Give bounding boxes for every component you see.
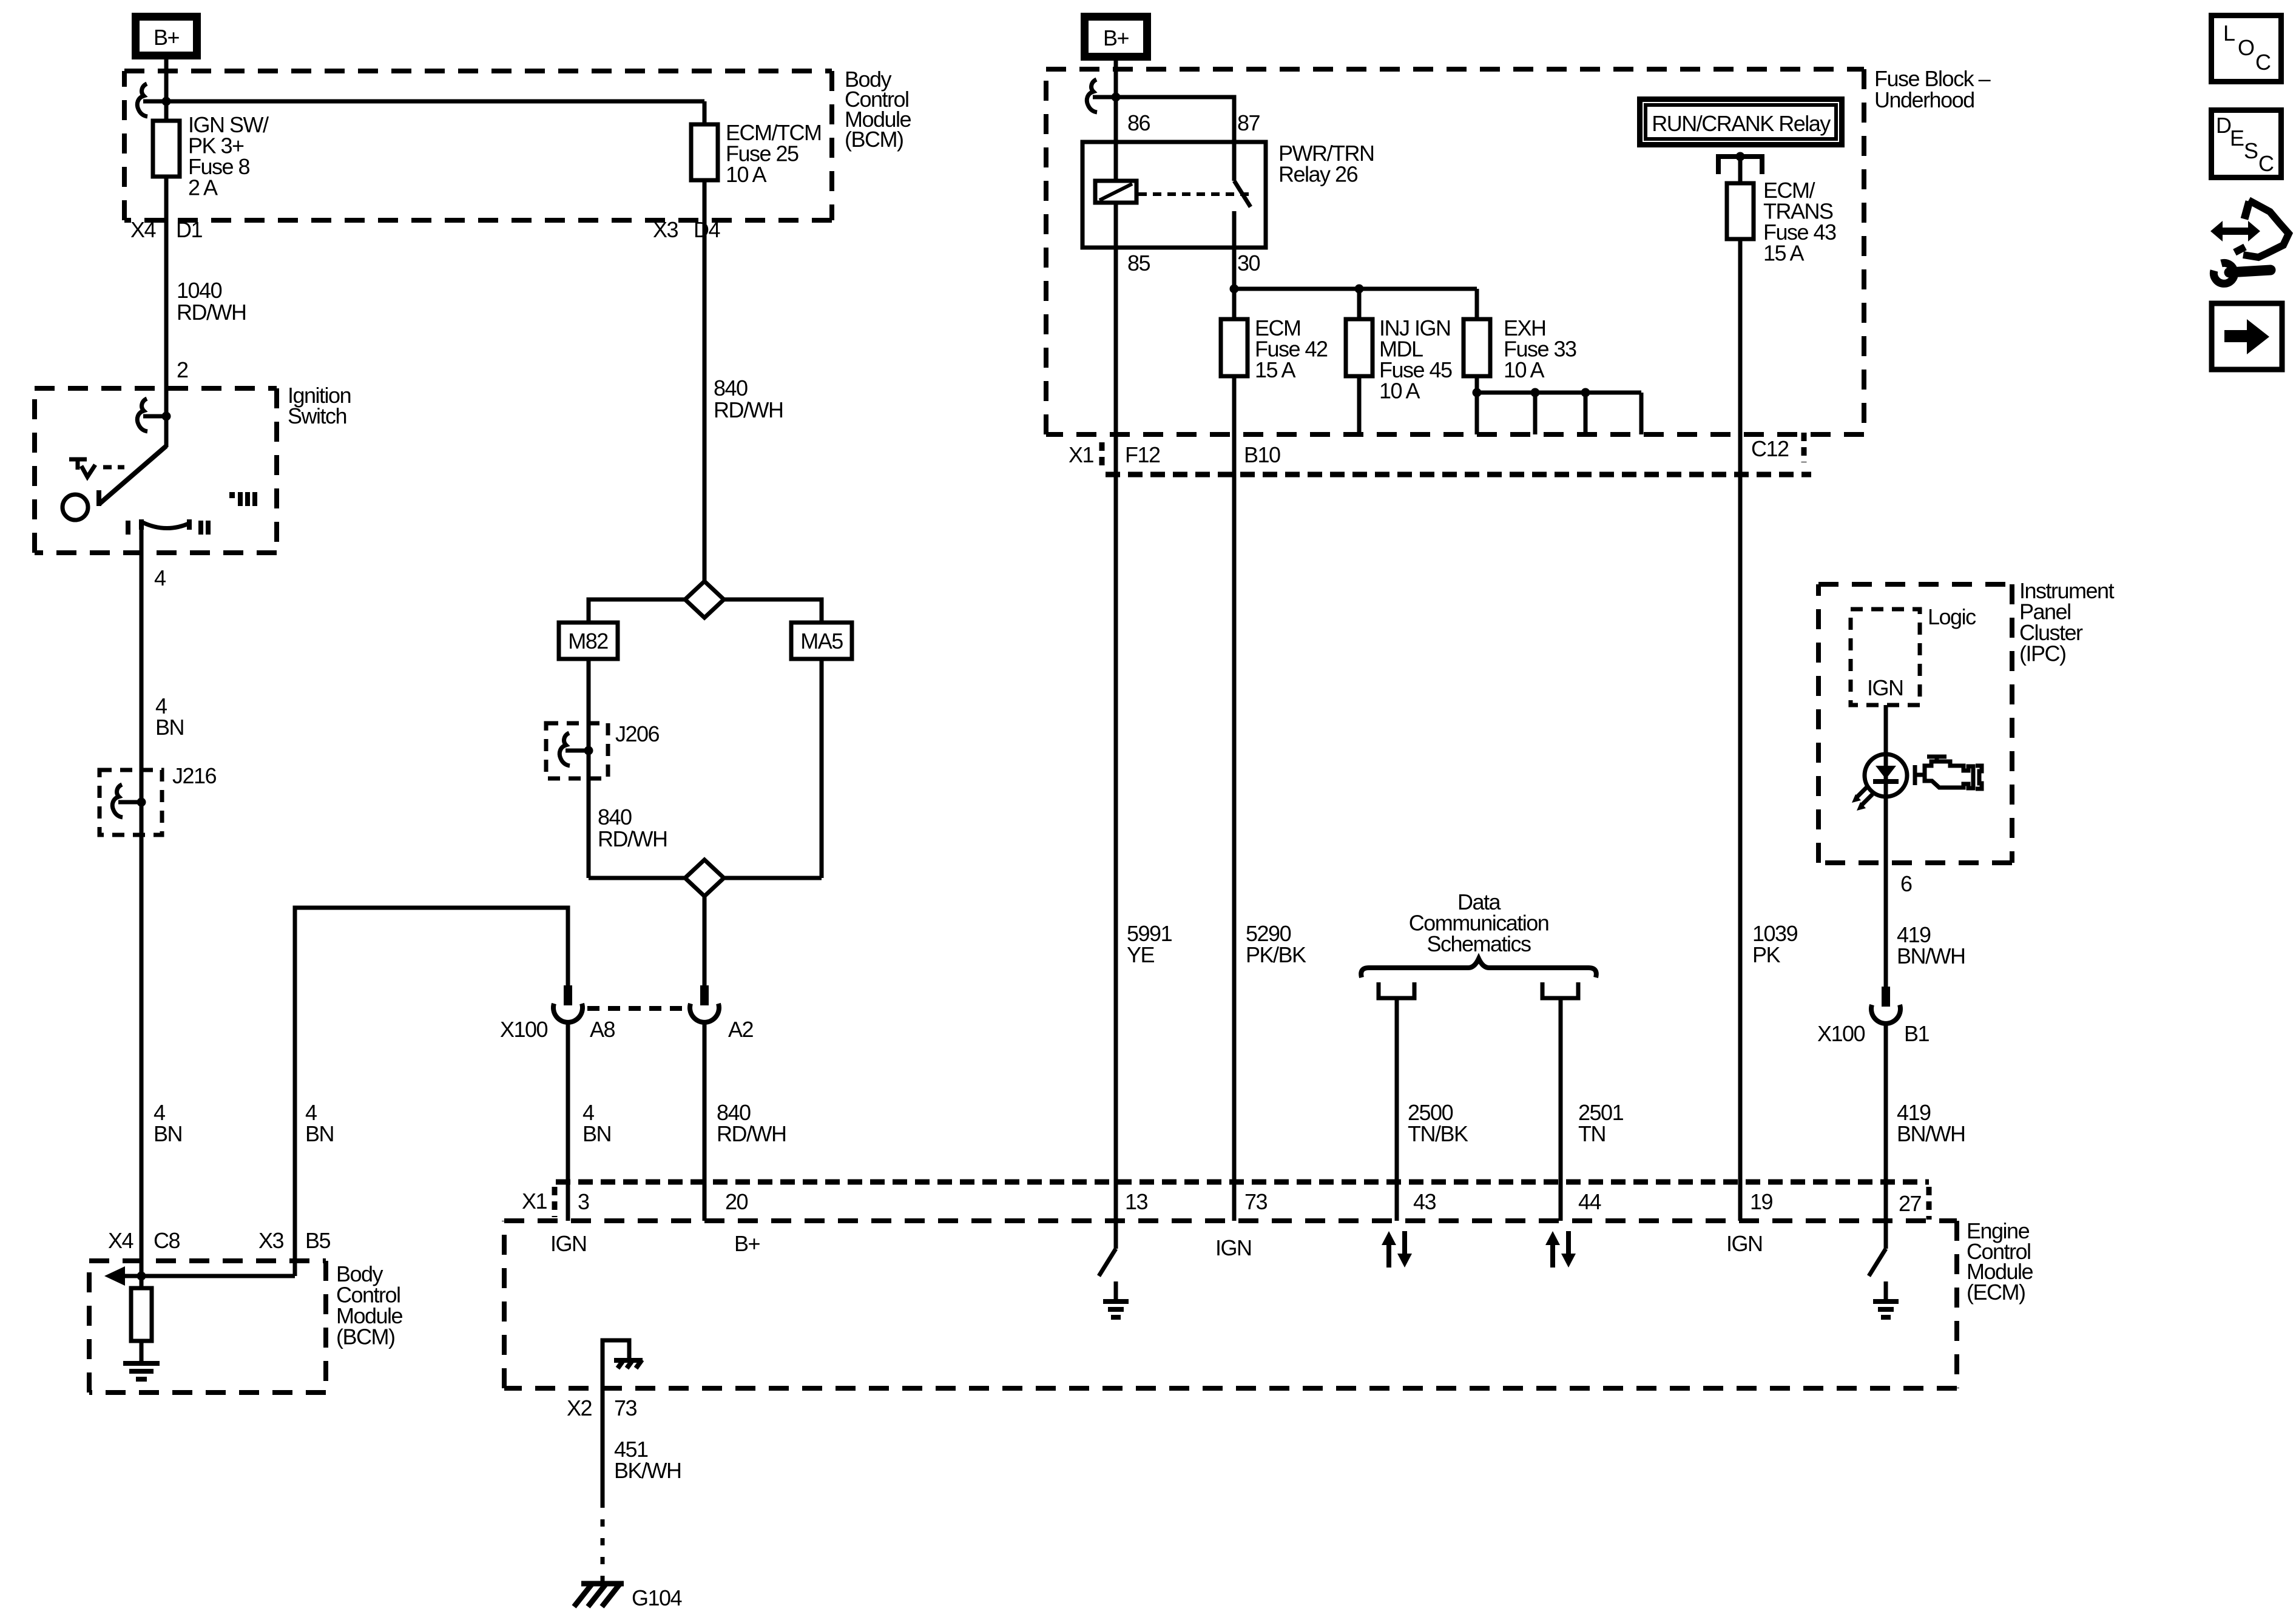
svg-text:73: 73	[1244, 1189, 1268, 1214]
wire logic to LED	[1884, 705, 1888, 989]
svg-text:TN: TN	[1578, 1121, 1606, 1146]
svg-text:1040: 1040	[177, 278, 222, 303]
relay PWR/TRN box	[1082, 142, 1266, 248]
label 4 BN at pin 3	[582, 1100, 611, 1146]
label 85 30	[1127, 251, 1260, 275]
fuse 8 IGN SW/PK 3+ 2A	[153, 121, 180, 177]
svg-text:C: C	[2258, 151, 2274, 176]
wire BCM internal horizontal	[124, 1274, 295, 1278]
B+ terminal 1	[136, 17, 197, 56]
svg-text:15 A: 15 A	[1763, 241, 1805, 266]
Ignition Switch dashed box	[35, 388, 277, 553]
label fuse 42	[1255, 316, 1328, 382]
svg-text:M82: M82	[568, 629, 608, 653]
svg-text:D: D	[2216, 113, 2231, 138]
connector row X1 fuse block	[1106, 472, 1811, 478]
svg-text:B10: B10	[1244, 442, 1280, 467]
arrow internal left	[104, 1266, 125, 1286]
wire B+2 down	[1114, 61, 1118, 180]
svg-text:X100: X100	[500, 1017, 548, 1042]
ignition switch key symbol	[62, 459, 124, 520]
svg-text:O: O	[2238, 35, 2254, 60]
svg-text:X1: X1	[1069, 442, 1094, 467]
svg-text:C8: C8	[154, 1228, 180, 1253]
label X4 D1	[130, 217, 202, 242]
svg-text:Switch: Switch	[288, 403, 346, 428]
svg-text:B+: B+	[1103, 25, 1129, 50]
label X100 A8 A2	[500, 1017, 754, 1042]
svg-text:B+: B+	[734, 1231, 760, 1256]
svg-text:X1: X1	[522, 1189, 547, 1214]
fuse 45 INJ IGN MDL	[1346, 319, 1373, 376]
svg-text:87: 87	[1237, 110, 1260, 135]
wire bracket to fuse43	[1738, 157, 1743, 183]
svg-text:13: 13	[1125, 1189, 1148, 1214]
svg-text:BN/WH: BN/WH	[1897, 1121, 1965, 1146]
svg-text:RD/WH: RD/WH	[598, 826, 667, 851]
svg-text:BN: BN	[305, 1121, 334, 1146]
icon wrench	[2213, 263, 2271, 283]
svg-text:(IPC): (IPC)	[2019, 641, 2066, 666]
svg-text:840: 840	[714, 376, 748, 400]
label 2501 TN	[1578, 1100, 1624, 1146]
svg-text:PK/BK: PK/BK	[1246, 942, 1306, 967]
Engine Control Module dashed box	[504, 1221, 1957, 1388]
svg-text:Underhood: Underhood	[1874, 87, 1974, 112]
label X3 B5	[258, 1228, 331, 1253]
ground in BCM	[123, 1363, 160, 1379]
arrows pin 44	[1545, 1231, 1576, 1268]
B+ terminal 2	[1085, 17, 1147, 57]
svg-text:IGN: IGN	[550, 1231, 587, 1256]
svg-text:20: 20	[725, 1189, 748, 1214]
wire fuse43 down to pin 19	[1738, 239, 1743, 1221]
node fuse45 tap	[1355, 285, 1364, 294]
svg-text:2: 2	[177, 357, 188, 382]
ignition switch blade	[99, 446, 166, 506]
svg-text:840: 840	[598, 805, 632, 829]
brace	[1361, 959, 1596, 977]
wire fuse33 down	[1475, 376, 1479, 434]
dashed connector link A8 A2	[587, 1006, 687, 1011]
icon arrow box	[2212, 303, 2282, 370]
label 840 RD/WH mid	[714, 376, 783, 422]
label Body Control Module (BCM) bottom	[336, 1261, 403, 1349]
svg-text:IGN: IGN	[1867, 675, 1903, 700]
wire merge left	[589, 876, 685, 880]
svg-text:15 A: 15 A	[1255, 357, 1296, 382]
label Fuse Block Underhood	[1874, 66, 1991, 112]
ground loop X2 73	[603, 1340, 643, 1388]
svg-text:X4: X4	[108, 1228, 133, 1253]
wire fuse 8 to ignition switch	[164, 177, 169, 447]
svg-text:C12: C12	[1751, 436, 1789, 461]
clip at B+ feed	[137, 84, 166, 116]
wire relay pin 85 down	[1114, 203, 1118, 1221]
svg-text:F12: F12	[1125, 442, 1160, 467]
wire A8 down to pin 3	[566, 1022, 570, 1221]
svg-text:6: 6	[1900, 871, 1912, 896]
svg-text:IGN: IGN	[1215, 1235, 1252, 1260]
svg-text:J216: J216	[172, 763, 217, 788]
label X3 D4	[653, 217, 720, 242]
svg-text:C: C	[2255, 50, 2271, 75]
svg-text:D1: D1	[176, 217, 202, 242]
node junction B+ left	[162, 97, 171, 106]
wire A2 down to pin 20	[703, 1022, 707, 1221]
label 4 BN	[155, 694, 184, 740]
svg-text:RUN/CRANK Relay: RUN/CRANK Relay	[1652, 111, 1831, 136]
svg-text:BN/WH: BN/WH	[1897, 944, 1965, 968]
wire fuse42 down to pin 73	[1232, 376, 1237, 1221]
svg-text:4: 4	[154, 565, 166, 590]
C12 divider dashes	[1801, 433, 1807, 462]
hook terminal 43	[1379, 982, 1414, 1002]
svg-text:IGN: IGN	[1726, 1231, 1763, 1256]
wire diamond right branch	[724, 599, 822, 623]
svg-text:PK: PK	[1752, 942, 1781, 967]
svg-text:E: E	[2230, 126, 2244, 150]
label Body Control Module (BCM)	[845, 67, 911, 152]
svg-text:Logic: Logic	[1928, 604, 1976, 629]
Fuse Block Underhood dashed box	[1046, 69, 1864, 434]
svg-text:Schematics: Schematics	[1427, 931, 1531, 956]
svg-text:85: 85	[1127, 251, 1150, 275]
wire fuse45 stub	[1357, 289, 1362, 319]
svg-text:3: 3	[578, 1189, 589, 1214]
node ignition pin 2	[162, 412, 171, 421]
wire top horizontal bus	[166, 100, 704, 104]
svg-text:A8: A8	[590, 1017, 615, 1042]
svg-text:44: 44	[1578, 1189, 1601, 1214]
Body Control Module (BCM) bottom dashed box	[89, 1261, 326, 1393]
wire B+ to fuse 8	[164, 59, 169, 121]
clip at ignition pin 2	[137, 399, 166, 431]
svg-text:10 A: 10 A	[726, 162, 767, 187]
relay RUN/CRANK box	[1640, 100, 1842, 145]
svg-text:BN: BN	[154, 1121, 182, 1146]
svg-text:27: 27	[1899, 1191, 1922, 1216]
label 840 RD/WH at pin 20	[717, 1100, 786, 1146]
svg-text:(ECM): (ECM)	[1967, 1280, 2025, 1305]
label X4 C8	[108, 1228, 180, 1253]
svg-text:10 A: 10 A	[1504, 357, 1545, 382]
label fuse 8	[188, 112, 269, 200]
label Data Communication Schematics	[1409, 890, 1549, 956]
LED light arrows	[1852, 786, 1872, 811]
svg-text:19: 19	[1750, 1189, 1773, 1214]
wire diamond left branch	[589, 599, 685, 623]
svg-text:BN: BN	[582, 1121, 611, 1146]
svg-text:YE: YE	[1127, 942, 1155, 967]
svg-text:RD/WH: RD/WH	[177, 300, 246, 325]
label PWR/TRN Relay 26	[1278, 141, 1374, 187]
label 2500 TN/BK	[1408, 1100, 1468, 1146]
label 5991 YE	[1127, 921, 1172, 967]
connector MA5	[791, 623, 852, 659]
label X100 B1	[1817, 1021, 1930, 1046]
comb feed bus	[1477, 388, 1641, 435]
arrows pin 43	[1382, 1231, 1412, 1268]
LED indicator	[1865, 754, 1907, 797]
wire fuse25 top stub	[703, 101, 707, 124]
label X2 73	[567, 1396, 637, 1420]
svg-text:G104: G104	[632, 1585, 682, 1610]
splice diamond top	[685, 581, 724, 618]
label fuse 45	[1379, 316, 1452, 403]
node B+2 junction	[1112, 93, 1121, 102]
icon hand double arrow	[2210, 200, 2289, 257]
wire MA5 down	[820, 659, 824, 878]
wire fuse33 stub	[1475, 289, 1479, 319]
svg-text:RD/WH: RD/WH	[717, 1121, 786, 1146]
resistor in BCM	[131, 1276, 152, 1361]
hook terminal 44	[1542, 982, 1578, 1002]
Instrument Panel Cluster dashed box	[1818, 584, 2012, 863]
relay switch blade	[1234, 142, 1251, 207]
wire ignition pin 4 down	[140, 530, 144, 1276]
svg-text:BK/WH: BK/WH	[614, 1458, 681, 1483]
svg-text:S: S	[2244, 138, 2258, 163]
label Ignition Switch	[288, 383, 351, 428]
wire 451 down	[601, 1388, 605, 1503]
node BCM internal junction	[137, 1272, 146, 1281]
svg-text:TN/BK: TN/BK	[1408, 1121, 1468, 1146]
svg-text:MA5: MA5	[800, 629, 843, 653]
wire M82 down	[587, 659, 591, 878]
fuse 43 ECM/TRANS	[1727, 183, 1754, 239]
label 419 BN/WH upper	[1897, 922, 1965, 968]
label 451 BK/WH	[614, 1437, 681, 1483]
wire data comm 43	[1395, 1002, 1399, 1221]
label X1 F12 B10	[1069, 442, 1280, 467]
svg-text:X3: X3	[653, 217, 678, 242]
connector M82	[559, 623, 618, 659]
svg-text:X3: X3	[258, 1228, 284, 1253]
wire data comm 44	[1559, 1002, 1563, 1221]
svg-text:B+: B+	[154, 25, 180, 50]
connector X100 A8	[553, 985, 582, 1022]
icon DESC box	[2212, 110, 2281, 178]
svg-text:RD/WH: RD/WH	[714, 397, 783, 422]
clip at B+2	[1087, 79, 1116, 112]
label fuse 33	[1504, 316, 1576, 382]
icon LOC box	[2212, 16, 2281, 82]
svg-text:Relay 26: Relay 26	[1278, 162, 1358, 187]
wire merge right	[724, 876, 822, 880]
svg-text:BN: BN	[155, 715, 184, 740]
label Instrument Panel Cluster (IPC)	[2019, 578, 2115, 666]
X1 divider dashes	[1099, 442, 1105, 467]
svg-text:J206: J206	[615, 721, 660, 746]
svg-text:(BCM): (BCM)	[845, 127, 903, 152]
label 1039 PK	[1752, 921, 1798, 967]
svg-text:L: L	[2223, 21, 2235, 46]
svg-text:X4: X4	[130, 217, 156, 242]
ignition position marks I II III	[128, 492, 255, 535]
svg-text:86: 86	[1127, 110, 1150, 135]
label Engine Control Module (ECM)	[1967, 1218, 2033, 1305]
fuse 42 ECM	[1221, 319, 1248, 376]
node comb 1	[1473, 388, 1482, 397]
label 86 87	[1127, 110, 1260, 135]
label 5290 PK/BK	[1246, 921, 1306, 967]
node pin30 split	[1230, 285, 1239, 294]
ECM connector fine dashed row	[555, 1182, 1929, 1220]
svg-text:30: 30	[1237, 251, 1260, 275]
label 419 BN/WH lower	[1897, 1100, 1965, 1146]
splice diamond bottom	[685, 860, 724, 896]
relay dashed actuator link	[1138, 192, 1250, 196]
switch to ground pin 13	[1099, 1221, 1129, 1317]
svg-text:73: 73	[614, 1396, 637, 1420]
wire B5 branch	[295, 908, 568, 1276]
wire fuse 25 down to diamond	[703, 180, 707, 581]
wire pin30 horizontal	[1234, 287, 1477, 291]
engine icon MIL	[1915, 757, 1982, 789]
Body Control Module (BCM) top dashed box	[124, 71, 832, 220]
label 4 BN right	[305, 1100, 334, 1146]
relay coil	[1095, 181, 1136, 203]
svg-text:X100: X100	[1817, 1021, 1865, 1046]
label 4 BN left	[154, 1100, 182, 1146]
svg-text:43: 43	[1413, 1189, 1436, 1214]
connector X100 B1	[1871, 987, 1900, 1024]
svg-text:(BCM): (BCM)	[336, 1325, 394, 1349]
fuse 33 EXH	[1464, 319, 1490, 376]
svg-text:B5: B5	[305, 1228, 331, 1253]
Logic dashed box	[1851, 609, 1920, 705]
wire B1 down to pin 27	[1884, 1024, 1888, 1221]
connector X100 A2	[690, 985, 719, 1022]
label 840 RD/WH lower	[598, 805, 667, 851]
label fuse 43	[1763, 178, 1836, 266]
svg-text:2 A: 2 A	[188, 175, 218, 200]
wire 451 dashed to G104	[601, 1501, 605, 1581]
svg-text:X2: X2	[567, 1396, 592, 1420]
wire relay pin 30 down	[1232, 211, 1237, 319]
splice J206	[546, 721, 660, 778]
switch to ground pin 27	[1869, 1221, 1899, 1317]
fuse 25 ECM/TCM	[691, 124, 718, 180]
svg-text:A2: A2	[728, 1017, 754, 1042]
wire to relay pin 87	[1116, 97, 1234, 142]
svg-text:D4: D4	[694, 217, 720, 242]
wire diamond to A2	[703, 896, 707, 988]
ground G104	[574, 1584, 624, 1607]
svg-text:B1: B1	[1904, 1021, 1930, 1046]
label 1040 RD/WH	[177, 278, 246, 325]
svg-text:10 A: 10 A	[1379, 379, 1420, 403]
RUN/CRANK output bracket	[1718, 152, 1762, 175]
wire fuse45 down	[1357, 376, 1362, 434]
splice J216	[100, 763, 217, 835]
label fuse 25	[726, 120, 821, 187]
